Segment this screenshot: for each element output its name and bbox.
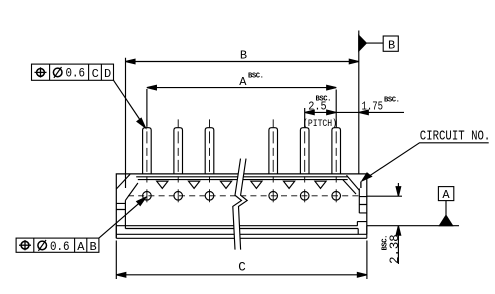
dim 2.5 line bbox=[305, 110, 337, 115]
svg-text:A: A bbox=[239, 75, 247, 89]
V notch 4 bbox=[251, 181, 262, 188]
break line 1 bbox=[233, 159, 242, 250]
datum A triangle bbox=[439, 215, 452, 225]
standoff right vertical bbox=[357, 229, 359, 235]
dim C line bbox=[116, 273, 367, 278]
dim A line bbox=[147, 85, 336, 90]
svg-text:B: B bbox=[240, 49, 247, 63]
svg-text:1.75: 1.75 bbox=[362, 99, 384, 113]
body right foot vertical bbox=[356, 222, 358, 226]
svg-text:B: B bbox=[388, 38, 395, 52]
V notch 6 bbox=[315, 181, 326, 188]
V notch 2 bbox=[189, 181, 200, 188]
svg-text:C: C bbox=[92, 67, 99, 81]
svg-text:0.6: 0.6 bbox=[50, 240, 70, 254]
body right steps bbox=[357, 197, 367, 222]
bottom strip bbox=[116, 226, 366, 239]
datum B extension line bbox=[358, 31, 360, 175]
datum B stem bbox=[366, 42, 383, 44]
body right wall bbox=[358, 189, 360, 214]
V notch 5 bbox=[284, 181, 295, 188]
V notch 1 bbox=[157, 181, 168, 188]
fcf top position symbol bbox=[35, 67, 47, 77]
dim C extension left bbox=[115, 241, 117, 280]
svg-text:2.5: 2.5 bbox=[308, 99, 327, 113]
break gap bbox=[233, 159, 247, 250]
dim 2.38 line top bbox=[396, 183, 401, 196]
svg-text:0.6: 0.6 bbox=[66, 67, 86, 81]
body left inner wall bbox=[124, 200, 126, 228]
dim A extension right (pin6) bbox=[335, 90, 337, 128]
body right inner chamfer bbox=[347, 175, 360, 190]
body left corner chamfer bbox=[116, 174, 130, 189]
fcf bottom diameter symbol bbox=[38, 240, 47, 251]
fcf top leader bbox=[114, 80, 146, 128]
datum A box bbox=[438, 187, 453, 201]
hole circle 1 bbox=[143, 189, 152, 202]
standoff plate top bbox=[125, 228, 358, 230]
body top shelf line2 bbox=[138, 179, 348, 181]
centerline extension right bbox=[367, 195, 402, 197]
dim B extension left bbox=[125, 58, 127, 188]
V notch 3 bbox=[220, 181, 231, 188]
hole circle 5 bbox=[300, 189, 309, 202]
hole circle 4 bbox=[269, 189, 278, 202]
hole circle 6 bbox=[332, 189, 341, 202]
centerline bbox=[128, 195, 361, 197]
dim 2.5 extension (pin5) bbox=[304, 108, 306, 127]
pin 1 bbox=[143, 119, 152, 182]
body bottom edge bbox=[116, 225, 357, 227]
hole circle 3 bbox=[205, 189, 214, 202]
datum A stem bbox=[445, 201, 447, 216]
svg-text:B: B bbox=[90, 240, 97, 254]
dim 2.38 line bottom bbox=[396, 226, 401, 264]
fcf top diameter symbol bbox=[53, 67, 62, 78]
hole circle 2 bbox=[174, 189, 183, 202]
fcf top frame bbox=[32, 64, 114, 80]
datum B box bbox=[383, 36, 398, 51]
pin 2 bbox=[174, 119, 183, 182]
circuit no leader bbox=[362, 143, 489, 181]
dim 1.75 line bbox=[336, 110, 404, 115]
svg-text:2.38: 2.38 bbox=[388, 234, 402, 264]
dim B line bbox=[126, 59, 359, 64]
svg-text:A: A bbox=[442, 188, 450, 202]
circuit number digit 1 bbox=[360, 182, 362, 189]
pin 5 bbox=[300, 119, 309, 182]
datum A surface line bbox=[367, 225, 459, 227]
svg-text:C: C bbox=[238, 260, 246, 274]
fcf bottom position symbol bbox=[19, 240, 31, 250]
fcf bottom frame bbox=[16, 238, 99, 252]
svg-text:BSC.: BSC. bbox=[382, 235, 390, 251]
break line 2 bbox=[239, 159, 248, 250]
svg-text:(PITCH): (PITCH) bbox=[303, 118, 337, 130]
fcf bottom leader bbox=[99, 197, 146, 238]
body left notch bbox=[116, 203, 125, 209]
svg-text:BSC.: BSC. bbox=[248, 73, 264, 81]
datum B triangle bbox=[359, 35, 367, 51]
pin 6 bbox=[332, 119, 341, 182]
pin 3 bbox=[205, 119, 214, 182]
body top shelf line1 bbox=[136, 176, 348, 178]
svg-text:BSC.: BSC. bbox=[384, 97, 400, 105]
body right inner chamfer 2 bbox=[343, 180, 356, 194]
body outline bbox=[116, 174, 366, 238]
svg-text:A: A bbox=[77, 240, 85, 254]
dim A extension left bbox=[146, 89, 148, 127]
pin 4 bbox=[269, 119, 278, 182]
svg-text:D: D bbox=[104, 67, 111, 81]
dim C extension right bbox=[366, 241, 368, 280]
body left inner chamfer bbox=[125, 183, 137, 200]
